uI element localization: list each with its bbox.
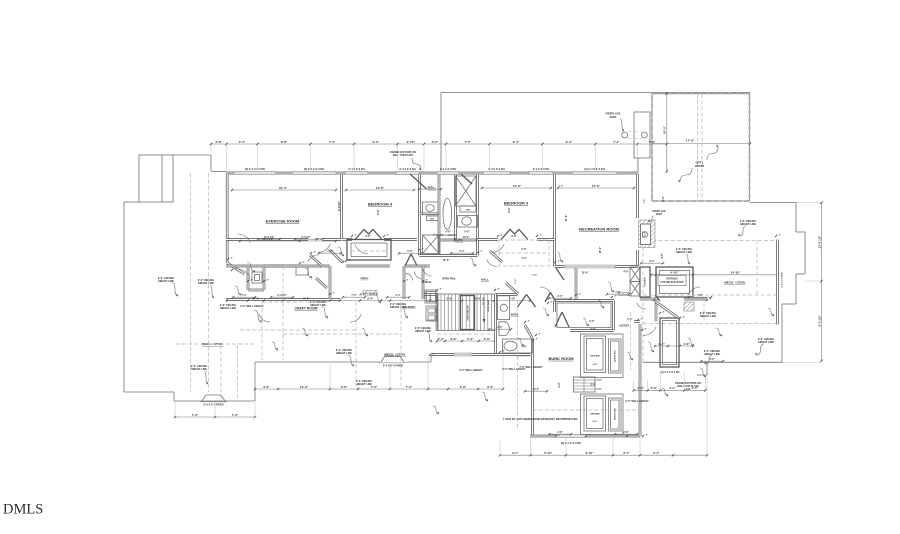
hall top walls	[226, 265, 300, 268]
svg-text:2'-6": 2'-6"	[637, 386, 644, 390]
svg-text:9'-0" WALL HEIGHT: 9'-0" WALL HEIGHT	[240, 305, 264, 308]
svg-text:9'-0 1/2": 9'-0 1/2"	[817, 315, 821, 327]
left stub rectangle	[139, 155, 173, 202]
stair left wall	[436, 294, 439, 331]
svg-text:9'-6": 9'-6"	[445, 230, 450, 233]
svg-text:2'-8": 2'-8"	[216, 140, 223, 144]
svg-text:4": 4"	[387, 233, 389, 236]
svg-text:(2) 2'-4 X 4'-0 DH: (2) 2'-4 X 4'-0 DH	[561, 441, 581, 445]
left stub connector lines	[173, 154, 211, 156]
svg-text:4": 4"	[426, 278, 428, 281]
bath1 tub	[443, 199, 452, 230]
svg-text:2'-6": 2'-6"	[596, 388, 601, 391]
svg-text:4": 4"	[615, 294, 617, 297]
scatter leaders	[247, 262, 255, 272]
svg-text:7'-0": 7'-0"	[232, 413, 239, 417]
top wall window 5	[437, 172, 459, 175]
svg-text:5'-4": 5'-4"	[467, 337, 474, 341]
svg-text:32'-4": 32'-4"	[279, 186, 288, 190]
recreation right wall	[636, 174, 639, 218]
dash v 704	[703, 297, 705, 322]
bath3 cabinet	[497, 296, 509, 320]
svg-text:7'-4": 7'-4"	[613, 140, 620, 144]
bifold doors	[630, 267, 640, 282]
svg-text:2'-6": 2'-6"	[627, 318, 632, 321]
svg-text:FUTURE ELEVATOR: FUTURE ELEVATOR	[661, 281, 684, 284]
laundry door arcs	[406, 273, 413, 280]
leader 0	[172, 283, 178, 296]
svg-text:4": 4"	[433, 352, 435, 355]
svg-text:16'-0": 16'-0"	[598, 246, 602, 254]
svg-text:6'-10": 6'-10"	[544, 451, 553, 455]
svg-text:DMLS: DMLS	[3, 502, 43, 518]
access door arc	[643, 326, 656, 335]
svg-text:4": 4"	[440, 287, 442, 290]
leader 11	[686, 254, 690, 264]
elevator label	[658, 276, 686, 286]
svg-text:7'-0": 7'-0"	[406, 385, 413, 389]
svg-text:(2) 2'-4 X 3'-0 DH: (2) 2'-4 X 3'-0 DH	[584, 167, 604, 171]
svg-text:4": 4"	[235, 267, 237, 270]
recreation bottom window	[564, 265, 615, 268]
svg-text:7'-6": 7'-6"	[351, 294, 356, 297]
svg-text:4": 4"	[663, 310, 665, 313]
svg-text:4": 4"	[303, 260, 305, 263]
svg-text:3'-6": 3'-6"	[263, 385, 270, 389]
optl room leaders	[707, 147, 718, 160]
bottom-right outline	[643, 361, 782, 363]
svg-text:BEDROOM 3: BEDROOM 3	[504, 201, 529, 206]
bottom-center dim chain	[255, 388, 503, 390]
fireplace chase rect	[634, 112, 650, 158]
svg-text:4": 4"	[646, 433, 648, 436]
svg-text:2'-4 X 3'-0 DH: 2'-4 X 3'-0 DH	[440, 167, 456, 171]
svg-text:3'-0": 3'-0"	[590, 328, 595, 331]
laundry counter	[426, 306, 437, 321]
upper roof outline	[441, 92, 750, 94]
bath linen xbox 1	[456, 176, 477, 206]
bed3 bay chevron	[501, 230, 528, 240]
svg-text:4": 4"	[498, 287, 500, 290]
svg-text:4": 4"	[630, 433, 632, 436]
exercise room bottom wall	[226, 238, 308, 241]
svg-text:2'-6": 2'-6"	[460, 385, 467, 389]
top dimension chain	[211, 143, 667, 145]
svg-text:4": 4"	[355, 233, 357, 236]
svg-text:(2) 2'-4 X 3'-0 DH: (2) 2'-4 X 3'-0 DH	[304, 167, 324, 171]
svg-text:2'-6": 2'-6"	[644, 199, 646, 204]
svg-text:9'-6": 9'-6"	[511, 235, 516, 238]
svg-text:3'-0": 3'-0"	[557, 295, 562, 298]
bottom-left outline steps	[124, 391, 174, 393]
svg-text:15'-6": 15'-6"	[513, 184, 522, 188]
wall bath/bedroom3	[476, 174, 479, 256]
bath middle wall vertical	[438, 174, 441, 256]
svg-text:9'-6": 9'-6"	[464, 230, 469, 233]
svg-text:9'-0" WALL HEIGHT: 9'-0" WALL HEIGHT	[459, 369, 483, 372]
bunkroom bottom wall	[530, 435, 556, 438]
bath second vertical	[454, 174, 457, 240]
svg-text:6'-2": 6'-2"	[487, 385, 494, 389]
svg-text:17'-8": 17'-8"	[686, 139, 695, 143]
top wall window 2	[292, 172, 336, 175]
svg-text:3'-0": 3'-0"	[459, 250, 464, 253]
svg-text:5'-0": 5'-0"	[407, 250, 412, 253]
bedroom3 bottom walls	[478, 238, 499, 241]
svg-text:STACK: STACK	[429, 293, 432, 300]
hall door arc	[487, 259, 497, 266]
svg-text:HEIGHT LINE: HEIGHT LINE	[676, 251, 692, 254]
svg-text:9'-8": 9'-8"	[281, 140, 288, 144]
door swing 8	[689, 287, 700, 295]
svg-text:4'-0": 4'-0"	[432, 140, 439, 144]
svg-text:14'-6": 14'-6"	[592, 184, 601, 188]
bunk dim chain	[500, 454, 707, 456]
leader 8	[706, 355, 712, 364]
svg-text:9'-6": 9'-6"	[662, 196, 665, 201]
svg-text:HEIGHT LINE: HEIGHT LINE	[336, 352, 352, 355]
svg-text:2'-6": 2'-6"	[497, 326, 502, 329]
svg-text:(2) 2'-4 X 3'-0 DH: (2) 2'-4 X 3'-0 DH	[661, 371, 680, 374]
bath3 toilet	[499, 322, 510, 336]
top wall window 8	[572, 172, 617, 175]
right outline jagged	[750, 202, 796, 204]
svg-text:4": 4"	[422, 247, 424, 250]
fireplace vent leader	[620, 119, 624, 131]
bath1 toilet	[423, 202, 439, 215]
mech right wall	[776, 240, 779, 325]
svg-text:3'-0": 3'-0"	[649, 260, 654, 263]
door swing 9	[238, 269, 250, 279]
svg-text:4'-10": 4'-10"	[670, 271, 679, 275]
storage closet	[640, 267, 650, 297]
svg-text:4": 4"	[540, 233, 542, 236]
left corner diagonal wall	[227, 263, 244, 274]
laundry walls	[404, 265, 430, 268]
craft chase box	[252, 272, 262, 283]
bottom-left dim chain	[175, 416, 255, 418]
svg-text:10'-0": 10'-0"	[463, 236, 470, 239]
svg-text:4": 4"	[231, 256, 233, 259]
svg-text:ROOM: ROOM	[695, 164, 704, 168]
bedroom4 closet rect	[347, 240, 391, 261]
mech area left dashed	[642, 241, 644, 363]
svg-text:15'-6": 15'-6"	[581, 271, 589, 275]
bunk diag wall	[525, 325, 533, 339]
bed4 bay chevron	[355, 230, 382, 240]
svg-text:3'-4": 3'-4"	[669, 386, 676, 390]
svg-text:CRAFT ROOM: CRAFT ROOM	[295, 307, 318, 311]
elevator shaft	[656, 267, 693, 297]
junction tick marks	[310, 252, 312, 254]
stairs lower dim	[437, 340, 495, 342]
svg-text:TWIN BED: TWIN BED	[590, 414, 600, 416]
svg-text:16'-0": 16'-0"	[662, 125, 666, 134]
svg-text:7'-4": 7'-4"	[329, 140, 336, 144]
svg-text:4'-0": 4'-0"	[683, 342, 690, 346]
wall bedroom3/recreation	[553, 174, 556, 267]
svg-text:2'-8": 2'-8"	[557, 431, 562, 434]
svg-text:4": 4"	[779, 233, 781, 236]
svg-text:9'-6": 9'-6"	[521, 248, 526, 251]
bath3 tub	[502, 339, 532, 353]
svg-text:7'-4": 7'-4"	[427, 186, 432, 189]
svg-text:© 2023 BY SOUTHERN HOME DESIGN: © 2023 BY SOUTHERN HOME DESIGNS® INCORPO…	[503, 417, 578, 421]
svg-text:4": 4"	[589, 433, 591, 436]
top wall window 6	[483, 172, 510, 175]
svg-text:HEIGHT LINE: HEIGHT LINE	[758, 341, 774, 344]
door swing 7	[637, 302, 646, 309]
left exterior wall	[226, 173, 229, 263]
left dashed ceiling 2	[208, 173, 210, 392]
left dashed ceiling 3	[220, 345, 222, 399]
svg-text:QUEEN BED: QUEEN BED	[615, 349, 617, 361]
svg-text:4'-6": 4'-6"	[697, 294, 702, 297]
elev dim chain	[651, 274, 778, 276]
svg-text:4'-0": 4'-0"	[623, 270, 629, 274]
mid bottom window	[454, 353, 472, 356]
svg-text:HEIGHT LINE: HEIGHT LINE	[704, 353, 720, 356]
svg-text:3'-0": 3'-0"	[590, 384, 595, 387]
svg-text:4": 4"	[481, 249, 483, 252]
door swing 1	[318, 244, 330, 253]
svg-text:HEIGHT LINE: HEIGHT LINE	[310, 304, 326, 307]
svg-text:QUEEN BED: QUEEN BED	[615, 407, 617, 419]
chimney hatchbox	[684, 302, 694, 311]
svg-text:7'-0": 7'-0"	[192, 413, 199, 417]
svg-text:DN 16R: DN 16R	[483, 297, 485, 305]
tub window	[515, 353, 531, 356]
top wall window 4	[396, 172, 419, 175]
svg-text:4": 4"	[407, 278, 409, 281]
svg-text:4": 4"	[333, 291, 335, 294]
svg-text:2'-4": 2'-4"	[327, 250, 332, 253]
door swing 0	[238, 234, 250, 243]
svg-text:2'-4": 2'-4"	[367, 296, 374, 300]
svg-text:ACCESS: ACCESS	[619, 324, 629, 327]
svg-text:HEIGHT LINE: HEIGHT LINE	[198, 282, 214, 285]
leader 9	[757, 344, 764, 355]
twin bed upper	[584, 336, 606, 373]
svg-text:(2) 2'-4 X 3'-0 DH: (2) 2'-4 X 3'-0 DH	[245, 167, 265, 171]
svg-text:4": 4"	[551, 300, 553, 303]
hall bottom wall	[226, 298, 340, 301]
svg-text:HEIGHT LINE: HEIGHT LINE	[700, 315, 716, 318]
optional room inner dashed columns	[697, 94, 699, 201]
top exterior wall	[226, 172, 638, 175]
svg-text:3'-6": 3'-6"	[450, 337, 457, 341]
svg-text:HEIGHT LINE: HEIGHT LINE	[415, 330, 431, 333]
svg-text:3'-0": 3'-0"	[589, 320, 594, 323]
svg-text:4": 4"	[251, 278, 253, 281]
svg-text:4": 4"	[503, 349, 505, 352]
svg-text:2'-8": 2'-8"	[623, 431, 628, 434]
bottom bay window left	[202, 395, 225, 401]
mech top dashed ceiling	[640, 240, 777, 242]
exercise lower dims	[240, 240, 336, 242]
door swing 2	[355, 244, 368, 253]
svg-text:4": 4"	[558, 259, 560, 262]
svg-text:9'-6 1/2": 9'-6 1/2"	[337, 200, 341, 211]
top wall window 1	[234, 172, 276, 175]
svg-text:MECH. / STOR.: MECH. / STOR.	[724, 281, 745, 285]
bunk closet walls	[554, 299, 614, 302]
svg-text:9'-4": 9'-4"	[373, 140, 380, 144]
main stair	[438, 294, 496, 331]
svg-text:6'-10": 6'-10"	[585, 451, 594, 455]
bath2 sink	[458, 216, 478, 228]
svg-text:3'-0": 3'-0"	[596, 379, 601, 382]
svg-text:DST: DST	[466, 209, 471, 211]
mech mid dashed ceiling	[643, 294, 777, 296]
svg-text:STORAGE: STORAGE	[644, 276, 647, 287]
svg-text:OPEN BELOW: OPEN BELOW	[468, 305, 470, 321]
svg-text:12'-6 1/2": 12'-6 1/2"	[817, 235, 821, 249]
bunk closet doors	[518, 295, 527, 308]
access dashed	[630, 312, 632, 370]
svg-text:3'-10": 3'-10"	[407, 140, 416, 144]
craft room walls	[264, 265, 330, 268]
chimney small chain	[655, 345, 693, 347]
bath compartment walls	[420, 212, 440, 215]
svg-text:10'-0": 10'-0"	[533, 388, 540, 391]
bath3 divider wall	[494, 294, 497, 355]
chimney	[660, 318, 679, 367]
svg-text:4": 4"	[657, 297, 659, 300]
bedroom4 bottom walls	[342, 238, 353, 241]
svg-text:2'-4 X 2'-4 FIXED: 2'-4 X 2'-4 FIXED	[383, 364, 403, 368]
svg-text:DST: DST	[430, 219, 435, 221]
svg-text:10'-0": 10'-0"	[442, 258, 450, 262]
svg-text:2'-4": 2'-4"	[241, 294, 246, 297]
svg-text:9'-4": 9'-4"	[566, 140, 573, 144]
bunk right lower walls	[640, 298, 656, 301]
svg-text:4": 4"	[683, 315, 685, 318]
svg-text:2'-4 X 1'-6 MLB: 2'-4 X 1'-6 MLB	[781, 272, 784, 288]
mid bottom wall	[431, 353, 530, 356]
svg-text:7'-4": 7'-4"	[465, 140, 472, 144]
bath door diag	[410, 174, 427, 189]
recreation fireplace hatch	[639, 220, 656, 248]
svg-text:OPEN RAIL: OPEN RAIL	[442, 277, 456, 280]
svg-text:4/12: 4/12	[686, 388, 691, 391]
svg-text:3'-6": 3'-6"	[341, 385, 348, 389]
leader 7	[427, 332, 432, 342]
bunk dashed	[533, 409, 641, 411]
svg-text:BEDROOM 4: BEDROOM 4	[368, 202, 393, 207]
bunkroom right wall	[639, 324, 642, 436]
svg-text:13'-5 1/2": 13'-5 1/2"	[264, 236, 274, 239]
recreation bottom wall	[555, 265, 639, 268]
svg-text:4": 4"	[501, 233, 503, 236]
svg-text:4'-6": 4'-6"	[593, 420, 598, 423]
svg-text:4": 4"	[641, 317, 643, 320]
svg-text:4": 4"	[267, 278, 269, 281]
svg-text:4'-0": 4'-0"	[709, 358, 714, 361]
zigzag hall walls	[310, 255, 322, 266]
door swing 5	[423, 269, 432, 276]
svg-text:3'-0": 3'-0"	[658, 342, 665, 346]
bed platform upper	[581, 334, 624, 378]
door swing 11	[350, 314, 361, 322]
bunkroom left wall	[531, 339, 534, 437]
laundry stack	[425, 290, 437, 303]
optl room dim line	[652, 143, 750, 145]
svg-text:9'-6": 9'-6"	[365, 235, 370, 238]
svg-text:14'-10": 14'-10"	[731, 271, 741, 275]
door swing 6	[540, 287, 551, 295]
rec door diag	[556, 268, 564, 280]
svg-text:VENT: VENT	[610, 115, 617, 119]
svg-text:2'-0" WALL HEIGHT: 2'-0" WALL HEIGHT	[625, 400, 649, 403]
mid-right dim chain	[634, 389, 706, 391]
svg-text:10'-0": 10'-0"	[300, 385, 309, 389]
bottom bay window mid	[381, 356, 404, 362]
right dashed v	[756, 241, 758, 296]
svg-text:5'-4": 5'-4"	[239, 140, 246, 144]
right vertical dim chain	[821, 203, 823, 361]
leader 4	[322, 307, 328, 318]
bath1 dst box	[460, 206, 476, 212]
svg-text:3'-6": 3'-6"	[651, 386, 658, 390]
svg-text:13'-6": 13'-6"	[376, 186, 385, 190]
bath linen xbox 2	[423, 235, 440, 254]
svg-text:4'-5 1/2": 4'-5 1/2"	[301, 236, 310, 239]
door swing 10	[259, 314, 270, 322]
svg-text:14'-6": 14'-6"	[564, 214, 568, 222]
svg-text:3'-7": 3'-7"	[512, 451, 519, 455]
hall bottom wall right	[423, 293, 437, 296]
svg-text:HALL: HALL	[481, 278, 489, 282]
svg-text:4'-6": 4'-6"	[533, 274, 538, 277]
leader 10	[740, 226, 746, 236]
svg-text:4'-6": 4'-6"	[521, 257, 526, 260]
svg-text:2'-4 X 3'-0 DH: 2'-4 X 3'-0 DH	[533, 167, 549, 171]
svg-text:HALL: HALL	[361, 276, 369, 280]
svg-text:9'-6": 9'-6"	[376, 208, 380, 214]
door swing 4	[308, 255, 318, 262]
svg-text:7'-0" WALL HEIGHT: 7'-0" WALL HEIGHT	[433, 234, 457, 237]
svg-text:TWIN BED: TWIN BED	[590, 356, 600, 358]
optl room vert dim	[666, 93, 668, 172]
top wall window 3	[345, 172, 368, 175]
leader 5	[348, 355, 354, 366]
svg-text:HEIGHT LINE: HEIGHT LINE	[191, 368, 207, 371]
bunk access walls	[618, 293, 631, 296]
svg-text:4'-0": 4'-0"	[558, 382, 561, 387]
svg-text:6'-0": 6'-0"	[303, 296, 310, 300]
svg-text:3'-7": 3'-7"	[623, 451, 630, 455]
svg-text:4": 4"	[528, 319, 530, 322]
svg-text:2'-0": 2'-0"	[446, 296, 453, 300]
svg-text:2'-4": 2'-4"	[395, 294, 400, 297]
bed platform lower	[581, 394, 624, 435]
svg-text:9'-2": 9'-2"	[515, 279, 517, 284]
optional room dashed border	[652, 94, 750, 202]
chimney diag wall	[656, 302, 678, 318]
bunk stair	[574, 377, 596, 392]
bunk bottom window	[556, 435, 586, 438]
left dashed ceiling 1	[190, 173, 192, 392]
svg-text:BUNK ROOM: BUNK ROOM	[548, 356, 574, 361]
queen bed lower	[609, 398, 622, 431]
svg-text:RECREATION ROOM: RECREATION ROOM	[579, 227, 619, 232]
queen bed upper	[609, 339, 622, 373]
leader 3	[254, 310, 262, 322]
recreation fireplace box	[641, 224, 651, 245]
twin bed lower	[584, 396, 606, 431]
bath2 dst box	[427, 216, 439, 221]
